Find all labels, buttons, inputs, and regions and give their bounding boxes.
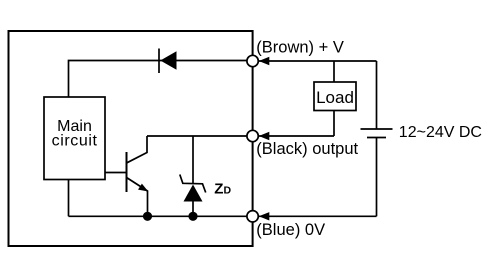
wire: load bottom to black output wire xyxy=(333,111,335,137)
svg-text:12~24V DC: 12~24V DC xyxy=(399,124,482,141)
wire: +V rail from main circuit top to brown terminal xyxy=(69,61,248,98)
wire: load top drop xyxy=(333,61,335,82)
label (Brown) + V xyxy=(256,39,344,57)
wire: main circuit bottom to 0V rail xyxy=(68,180,70,217)
wire: collector to black output terminal xyxy=(147,135,247,137)
label (Black) output xyxy=(256,140,358,158)
load box xyxy=(314,82,356,111)
junction dot (zener / 0V rail) xyxy=(188,212,197,221)
zener diode ZD xyxy=(180,136,206,216)
label ZD xyxy=(214,181,231,198)
terminal circle (Black) xyxy=(247,130,258,141)
arrow into black terminal xyxy=(259,132,270,140)
terminal circle (Brown) xyxy=(247,55,258,66)
arrow into blue terminal xyxy=(259,212,270,220)
Main circuit block xyxy=(44,97,105,180)
svg-text:(Black) output: (Black) output xyxy=(256,140,358,158)
junction dot (emitter / 0V rail) xyxy=(143,212,152,221)
diode D1 (reverse polarity protection, on +V rail) xyxy=(159,49,177,74)
svg-text:circuit: circuit xyxy=(52,133,98,150)
label (Blue) 0V xyxy=(256,221,325,239)
transistor Q1 (NPN output transistor) xyxy=(127,136,149,216)
svg-text:ZD: ZD xyxy=(214,181,231,198)
svg-text:(Brown) + V: (Brown) + V xyxy=(256,39,344,57)
arrow into brown terminal xyxy=(259,57,270,65)
wire: brown terminal to battery positive xyxy=(259,60,377,62)
battery B1 (12-24V DC) xyxy=(361,61,393,216)
outer enclosure box xyxy=(9,31,253,246)
wire: black terminal to load xyxy=(259,135,334,137)
wire: 0V rail xyxy=(69,215,248,217)
svg-text:Load: Load xyxy=(316,88,354,107)
terminal circle (Blue) xyxy=(247,211,258,222)
wire: base wire from main circuit to transistor xyxy=(105,172,127,174)
wire: battery negative to blue terminal xyxy=(259,215,377,217)
svg-text:(Blue) 0V: (Blue) 0V xyxy=(256,221,325,239)
label 12~24V DC xyxy=(399,124,482,141)
